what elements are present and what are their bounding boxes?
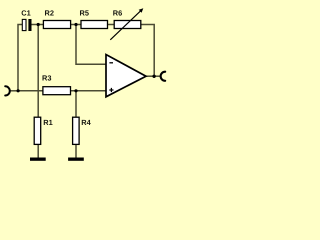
wire R4 to ground (75, 145, 77, 158)
wire R1 to ground (37, 145, 39, 158)
capacitor C1 (21, 8, 31, 31)
resistor R3 (42, 73, 71, 94)
wire node C down to R4 (75, 91, 77, 117)
ground for R1 (30, 158, 46, 161)
wire R2 to R5 with node B (71, 24, 82, 26)
svg-text:R2: R2 (45, 8, 54, 17)
input connector (5, 86, 10, 95)
resistor R4 (73, 117, 92, 144)
wire C1 to node A (31, 24, 43, 26)
wire vertical IN up to C1 row (18, 25, 23, 92)
node A junction (37, 23, 40, 26)
svg-text:R4: R4 (81, 118, 91, 127)
node B junction (74, 23, 77, 26)
ground for R4 (68, 158, 84, 161)
op-amp U1 (106, 55, 146, 97)
resistor R1 (34, 117, 53, 144)
node IN junction (17, 89, 20, 92)
wire opamp output to arc (146, 75, 161, 77)
resistor R5 (80, 8, 108, 28)
resistor R2 (43, 8, 70, 28)
output connector (161, 72, 166, 81)
svg-text:R5: R5 (80, 8, 89, 17)
wire node A down to R1 (37, 25, 39, 118)
node OUT junction (152, 75, 155, 78)
wire R3 to plus input (70, 90, 106, 92)
potentiometer R6 (110, 8, 143, 40)
svg-text:R6: R6 (113, 8, 122, 17)
svg-text:C1: C1 (21, 8, 30, 17)
svg-text:R3: R3 (42, 73, 51, 82)
wire node IN to R3 (18, 90, 43, 92)
wire R6 to feedback corner (141, 25, 154, 77)
wire R5 to R6 (108, 24, 115, 26)
wire input arc to node IN (10, 90, 18, 92)
svg-text:R1: R1 (43, 118, 52, 127)
node C junction (74, 89, 77, 92)
wire node B down to minus input (76, 25, 106, 65)
